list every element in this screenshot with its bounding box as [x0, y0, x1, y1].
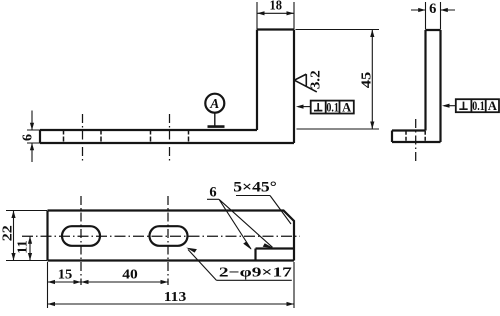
svg-text:113: 113 [164, 290, 187, 305]
top view: wall edge (step) [256, 249, 295, 261]
top view: slot 2 [150, 226, 188, 246]
side view: centerline [415, 119, 417, 162]
svg-text:0.1: 0.1 [472, 99, 485, 113]
side view: hidden slot lines [406, 131, 425, 142]
svg-text:A: A [209, 96, 219, 111]
dimension 15 [48, 262, 82, 308]
front view: hidden lines of slot 1 [64, 130, 102, 144]
datum A symbol [205, 94, 224, 113]
dimension 40 [81, 281, 168, 283]
top view: centerline slot 1 [80, 196, 82, 285]
svg-text:A: A [488, 99, 497, 113]
svg-text:6: 6 [429, 1, 436, 17]
surface finish symbol 3.2 [294, 74, 317, 92]
svg-text:5×45°: 5×45° [233, 180, 277, 196]
svg-text:2−φ9×17: 2−φ9×17 [219, 266, 292, 281]
svg-text:11: 11 [15, 240, 30, 254]
svg-text:22: 22 [0, 225, 14, 241]
svg-text:18: 18 [269, 0, 282, 14]
front view: hidden lines of slot 2 [151, 130, 189, 144]
top view: plate outline with chamfer [48, 211, 295, 261]
dimension 45 [296, 30, 380, 130]
dimension 22 [6, 211, 47, 261]
side view: base plate outline [392, 131, 441, 143]
svg-text:3.2: 3.2 [308, 70, 323, 89]
svg-text:6: 6 [21, 134, 36, 141]
front view: centerline slot 1 [82, 114, 84, 163]
svg-text:15: 15 [58, 268, 73, 283]
svg-text:40: 40 [122, 268, 138, 283]
dimension 11 [29, 236, 31, 260]
svg-text:6: 6 [209, 185, 216, 201]
feature control frame side view (perpendicularity 0.1 A) [456, 99, 499, 112]
front view: vertical wall outline [257, 30, 294, 144]
svg-text:45: 45 [360, 72, 375, 89]
svg-text:0.1: 0.1 [326, 101, 339, 115]
top view: centerline slot 2 [167, 196, 169, 285]
dimension 6 (side view wall thickness) [411, 2, 455, 30]
side view: wall outline [426, 30, 441, 142]
top view: slot 1 [62, 226, 100, 246]
dimension 18 [257, 2, 294, 29]
front view: base plate outline [40, 130, 294, 143]
dimension 6 (front view plate thickness) [27, 111, 40, 163]
front view: centerline slot 2 [169, 114, 171, 163]
feature control frame front view (perpendicularity 0.1 A) [311, 101, 354, 114]
top view: horizontal centerline [22, 235, 300, 237]
dimension 113 [48, 262, 295, 308]
svg-text:A: A [342, 101, 351, 115]
